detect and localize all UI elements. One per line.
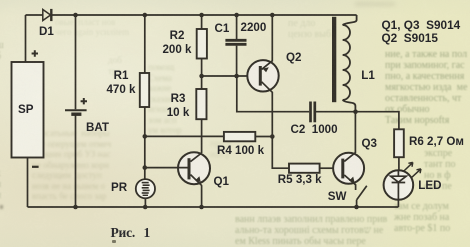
node junction top-R2 <box>199 13 204 18</box>
node rail-BAT <box>73 205 78 210</box>
wire C1 to C2 <box>237 76 309 112</box>
label LED <box>418 179 441 193</box>
node R1-R4 <box>143 134 148 139</box>
label R5 value <box>278 173 322 187</box>
node L1 bottom <box>353 109 358 114</box>
node junction top-C1 <box>234 13 239 18</box>
caption Рис. 1 <box>111 225 151 241</box>
label R3 value <box>153 92 203 119</box>
node SW-rail <box>354 205 359 210</box>
BAT plus sign <box>81 98 87 104</box>
photoresistor PR <box>136 179 155 207</box>
SP minus sign <box>32 166 39 168</box>
label C1 <box>215 22 230 36</box>
wire top rail <box>26 14 357 16</box>
transistor Q1 <box>178 152 210 207</box>
capacitor C2 <box>311 102 315 123</box>
resistor R3 <box>196 76 206 153</box>
resistor R5 <box>289 164 333 173</box>
wire bottom rail <box>28 206 399 208</box>
label D1 <box>39 25 54 39</box>
label SP <box>18 103 33 117</box>
inductor L1 <box>332 15 357 112</box>
label R6 value <box>409 135 464 149</box>
resistor R1 <box>140 15 149 179</box>
node junction top-R1 <box>143 13 148 18</box>
label PR <box>111 181 127 195</box>
wire C2 to L1 node <box>316 111 356 113</box>
battery BAT wires <box>75 15 77 207</box>
label L1 <box>361 69 375 83</box>
wire R4 left <box>145 135 224 137</box>
node rail-PR <box>143 205 148 210</box>
wire Q2 collector to R5 <box>272 137 289 169</box>
battery BAT plates <box>65 110 87 114</box>
label transistor types <box>382 19 461 45</box>
wire SP bottom lead <box>27 158 29 207</box>
node R2-R3-base <box>199 74 204 79</box>
node rail-Q1 <box>199 205 204 210</box>
SP plus sign <box>32 50 38 56</box>
label R4 value <box>217 144 264 158</box>
bleed-through text (decorative) <box>385 49 467 126</box>
battery SP box <box>12 62 44 158</box>
label R1 value <box>96 69 146 96</box>
label Q3 <box>362 137 377 151</box>
label C1 value <box>241 21 267 35</box>
label R2 value <box>152 29 202 56</box>
node Q2-collector-R4 <box>270 134 275 139</box>
label SW <box>328 190 347 204</box>
transistor Q2 <box>247 15 278 137</box>
diode D1 <box>43 9 52 21</box>
transistor Q3 <box>333 112 364 190</box>
node C1-base <box>234 74 239 79</box>
wire L1 node to R6 <box>356 112 399 130</box>
wire left drop to SP <box>25 15 27 62</box>
node junction top-Q2 <box>270 13 275 18</box>
label Q2 <box>286 51 301 65</box>
label C2 value <box>291 123 338 137</box>
wire Q1 base <box>145 167 188 169</box>
resistor R6 <box>394 129 404 170</box>
resistor R2 <box>197 15 207 76</box>
node R1-Q1base <box>143 165 148 170</box>
capacitor C1 <box>225 15 246 76</box>
LED <box>384 162 421 207</box>
node junction top-bat <box>73 13 78 18</box>
switch SW <box>357 186 367 207</box>
wire Q2 base <box>202 75 248 77</box>
resistor R4 <box>224 132 272 141</box>
label BAT <box>86 121 109 135</box>
label Q1 <box>214 175 229 189</box>
